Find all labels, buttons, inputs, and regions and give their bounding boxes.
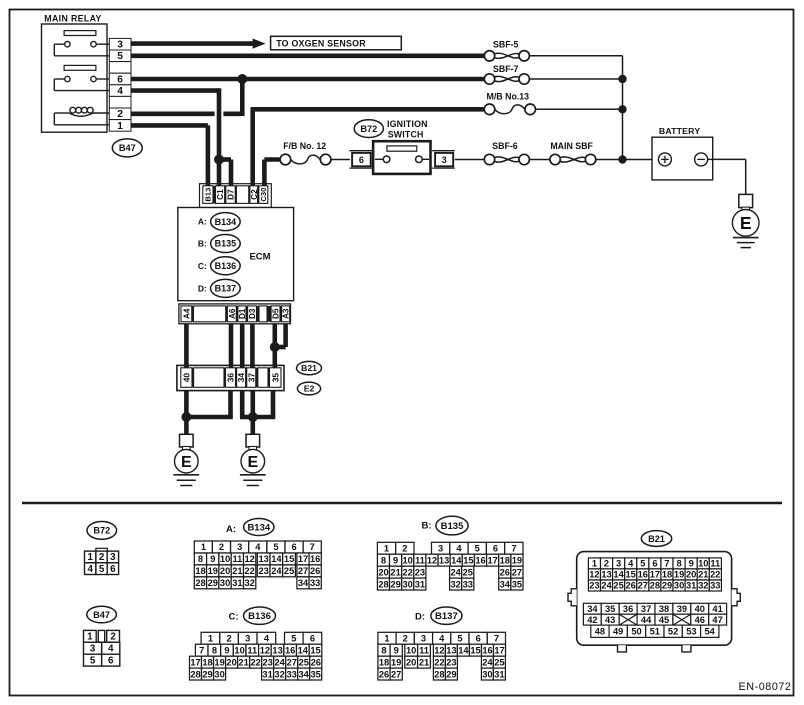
svg-text:45: 45 [659,615,669,625]
svg-text:E2: E2 [304,384,315,394]
wire SBF-6 to MAIN SBF [529,159,550,161]
svg-text:MAIN RELAY: MAIN RELAY [44,13,101,23]
svg-text:29: 29 [202,669,212,679]
svg-text:19: 19 [512,555,522,565]
svg-text:16: 16 [638,570,648,580]
svg-text:12: 12 [589,570,599,580]
svg-text:28: 28 [378,579,388,589]
svg-text:9: 9 [224,645,229,655]
svg-text:M/B No.13: M/B No.13 [487,92,530,102]
svg-text:17: 17 [298,554,308,564]
legend connector grid B137 [378,632,396,644]
svg-text:B13: B13 [204,188,213,202]
svg-text:4: 4 [108,644,114,655]
svg-text:35: 35 [270,373,280,383]
svg-text:2: 2 [117,109,123,120]
svg-text:36: 36 [623,604,633,614]
svg-text:A:: A: [226,524,236,535]
svg-text:31: 31 [686,581,696,591]
svg-text:1: 1 [592,559,597,569]
svg-text:9: 9 [394,645,399,655]
svg-text:5: 5 [475,544,480,554]
svg-text:22: 22 [434,657,444,667]
ignition switch terminal 6 [349,150,372,152]
svg-text:27: 27 [512,567,522,577]
connector B21 oval [297,361,322,374]
svg-text:34: 34 [299,669,310,679]
svg-text:3: 3 [442,155,447,165]
svg-text:8: 8 [677,559,682,569]
ECM top connector outer [200,184,272,208]
svg-text:26: 26 [500,567,510,577]
svg-text:B72: B72 [93,526,110,536]
svg-text:8: 8 [381,645,386,655]
svg-text:C:: C: [229,611,239,622]
svg-text:40: 40 [695,604,705,614]
svg-text:12: 12 [427,555,437,565]
svg-text:23: 23 [589,581,599,591]
svg-text:5: 5 [90,655,96,666]
svg-text:8: 8 [198,554,203,564]
svg-text:11: 11 [232,554,242,564]
svg-text:33: 33 [310,578,320,588]
svg-text:ECM: ECM [249,251,270,262]
wire pin6 to SBF-7 [131,77,484,82]
wire 40 down [184,391,189,417]
battery plus terminal [658,153,671,166]
junction dot C1/D7 branch [214,155,224,165]
svg-text:29: 29 [446,669,456,679]
svg-text:B135: B135 [441,521,464,532]
svg-text:6: 6 [652,559,657,569]
svg-text:16: 16 [475,555,485,565]
wire battery minus to ground [708,158,746,160]
svg-text:1: 1 [201,542,206,552]
svg-text:31: 31 [494,669,504,679]
legend B47 oval [87,606,117,623]
svg-text:3: 3 [616,559,621,569]
relay contact 2 [54,78,64,80]
ground E (right) [246,434,260,447]
svg-text:51: 51 [650,627,660,637]
legend connector grid B136 [201,632,220,644]
junction dot battery feed [618,155,626,163]
svg-text:B47: B47 [119,143,136,153]
svg-text:15: 15 [463,555,473,565]
svg-text:B:: B: [198,239,207,249]
svg-text:18: 18 [202,657,212,667]
svg-text:25: 25 [463,567,473,577]
svg-text:5: 5 [291,634,296,644]
svg-text:3: 3 [90,644,96,655]
B21 pin grid row 48-54 [591,625,609,637]
svg-text:2: 2 [227,634,232,644]
svg-text:33: 33 [287,669,297,679]
svg-text:28: 28 [434,669,444,679]
svg-text:34: 34 [298,578,309,588]
svg-text:38: 38 [659,604,669,614]
legend B47 connector [84,630,97,642]
connector E2 oval [297,382,320,395]
svg-text:16: 16 [310,554,320,564]
svg-text:30: 30 [482,669,492,679]
relay coil [54,112,69,114]
svg-text:32: 32 [451,579,461,589]
ignition switch terminal 3 [432,150,455,152]
legend B72 oval [87,522,117,540]
wire 36 down and left [228,391,233,417]
svg-text:25: 25 [613,581,623,591]
ECM bottom connector outer [179,304,291,324]
svg-text:B47: B47 [93,610,110,620]
svg-text:A6: A6 [228,308,237,319]
svg-text:22: 22 [251,657,261,667]
svg-text:15: 15 [284,554,294,564]
svg-text:14: 14 [298,645,309,655]
svg-text:25: 25 [284,566,294,576]
svg-text:22: 22 [245,566,255,576]
wire 35 down and left [271,391,276,417]
thin wires fuses to bus [529,55,622,57]
svg-text:1: 1 [87,552,93,563]
svg-text:5: 5 [273,542,278,552]
svg-text:9: 9 [210,554,215,564]
svg-text:6: 6 [310,634,315,644]
svg-text:13: 13 [446,645,456,655]
svg-text:34: 34 [587,604,598,614]
svg-text:10: 10 [698,559,708,569]
svg-text:35: 35 [512,579,522,589]
svg-text:52: 52 [668,627,678,637]
wire pin1 down to ECM B13 [131,123,208,128]
svg-text:20: 20 [378,567,388,577]
svg-text:35: 35 [605,604,615,614]
svg-text:30: 30 [403,579,413,589]
svg-text:18: 18 [500,555,510,565]
wire A3 joins D5 [283,324,288,347]
svg-text:46: 46 [695,615,705,625]
bus vertical to battery [622,56,624,160]
svg-text:1: 1 [384,634,389,644]
svg-text:27: 27 [287,657,297,667]
svg-text:43: 43 [605,615,615,625]
svg-text:23: 23 [259,566,269,576]
svg-text:2: 2 [219,542,224,552]
svg-text:A:: A: [198,217,207,227]
ECM bottom connector cells A4 A6 D1 D3 D5 A3 [181,306,192,322]
svg-text:D:: D: [415,611,425,622]
svg-text:6: 6 [493,544,498,554]
svg-text:B134: B134 [247,522,270,533]
B21 left tab [568,589,577,606]
svg-text:15: 15 [470,645,480,655]
svg-text:25: 25 [494,657,504,667]
connector B47 oval [112,139,142,157]
svg-text:18: 18 [379,657,389,667]
relay contact 2 fixed bar [64,65,96,70]
svg-text:B:: B: [422,521,432,532]
svg-text:4: 4 [439,634,445,644]
ECM top connector cells B13 C1 D7 C2 C30 [203,186,213,204]
svg-text:6: 6 [476,634,481,644]
svg-text:34: 34 [500,579,511,589]
svg-text:7: 7 [511,544,516,554]
svg-text:44: 44 [641,615,652,625]
relay contact 1 fixed bar [64,31,96,36]
connector row cells 40 36 34 37 35 [181,368,192,388]
B21 bottom tab 2 [682,645,691,652]
svg-text:3: 3 [245,634,250,644]
svg-text:A4: A4 [182,308,191,319]
wire 34 down and right [240,391,245,417]
svg-text:4: 4 [264,634,270,644]
svg-text:33: 33 [710,581,720,591]
svg-text:8: 8 [212,645,217,655]
B21 pin grid rows 1-33 [588,558,600,569]
svg-text:6: 6 [117,74,123,85]
svg-text:11: 11 [247,645,257,655]
svg-text:E: E [740,213,752,233]
svg-text:5: 5 [117,51,123,62]
svg-text:3: 3 [421,634,426,644]
svg-text:22: 22 [403,567,413,577]
svg-text:24: 24 [275,657,286,667]
svg-text:14: 14 [613,570,624,580]
wire F/B No.12 to ECM C30 [262,160,267,186]
wire A4 to 40 [184,324,189,368]
svg-text:MAIN SBF: MAIN SBF [550,141,593,151]
svg-text:B72: B72 [360,124,377,134]
svg-text:13: 13 [601,570,611,580]
svg-text:2: 2 [99,552,105,563]
section divider line [22,502,782,505]
svg-text:54: 54 [705,627,716,637]
svg-text:26: 26 [310,566,320,576]
svg-text:15: 15 [310,645,320,655]
B21 pin grid rows 34-47 [583,603,601,614]
svg-text:4: 4 [255,542,261,552]
svg-text:49: 49 [613,627,623,637]
svg-text:10: 10 [403,555,413,565]
svg-text:6: 6 [359,155,364,165]
wire terminal 3 to SBF-6 [455,159,485,161]
svg-text:26: 26 [626,581,636,591]
svg-text:31: 31 [232,578,242,588]
svg-text:8: 8 [381,555,386,565]
svg-text:42: 42 [587,615,597,625]
svg-text:22: 22 [710,570,720,580]
svg-text:30: 30 [214,669,224,679]
svg-text:21: 21 [238,657,248,667]
svg-text:21: 21 [390,567,400,577]
svg-text:16: 16 [285,645,295,655]
connector row B21/E2 outer [177,365,284,390]
svg-text:SWITCH: SWITCH [388,130,424,140]
svg-text:39: 39 [677,604,687,614]
svg-text:24: 24 [271,566,282,576]
svg-text:27: 27 [391,669,401,679]
wire M/B No.13 to ECM C2 [250,109,255,185]
svg-text:31: 31 [415,579,425,589]
svg-text:14: 14 [451,555,462,565]
svg-text:3: 3 [110,552,116,563]
svg-text:13: 13 [259,554,269,564]
svg-text:37: 37 [641,604,651,614]
legend B72 connector [96,548,108,551]
svg-text:1: 1 [384,544,389,554]
svg-text:24: 24 [451,567,462,577]
B21 right tab [732,589,741,606]
svg-text:B136: B136 [215,261,237,271]
svg-text:28: 28 [195,578,205,588]
svg-text:11: 11 [710,559,720,569]
svg-text:53: 53 [686,627,696,637]
svg-text:16: 16 [482,645,492,655]
svg-text:BATTERY: BATTERY [659,126,700,136]
ground E (left) [180,434,194,447]
battery minus terminal [695,153,708,166]
svg-text:19: 19 [214,657,224,667]
svg-text:12: 12 [260,645,270,655]
svg-text:6: 6 [108,655,114,666]
legend B21 oval [641,531,671,547]
wire pin4 down to ECM C1 (crosses pin2 wire) [131,88,219,93]
svg-text:18: 18 [662,570,672,580]
svg-text:35: 35 [311,669,321,679]
connector B72 oval [354,120,383,138]
svg-text:28: 28 [650,581,660,591]
junction dot M/B/bus [618,105,626,113]
svg-text:D5: D5 [272,308,281,319]
svg-text:18: 18 [195,566,205,576]
svg-text:SBF-5: SBF-5 [493,40,519,50]
svg-text:4: 4 [456,544,462,554]
svg-text:9: 9 [689,559,694,569]
svg-text:41: 41 [712,604,722,614]
svg-text:17: 17 [190,657,200,667]
svg-text:28: 28 [190,669,200,679]
svg-text:7: 7 [664,559,669,569]
svg-text:32: 32 [274,669,284,679]
svg-text:3: 3 [117,40,123,51]
svg-text:EN-08072: EN-08072 [738,681,791,693]
svg-text:19: 19 [674,570,684,580]
svg-text:1: 1 [117,121,123,132]
svg-text:23: 23 [446,657,456,667]
svg-text:29: 29 [208,578,218,588]
svg-text:B21: B21 [301,363,317,373]
svg-text:19: 19 [208,566,218,576]
svg-text:37: 37 [246,373,256,383]
svg-text:10: 10 [406,645,416,655]
svg-text:29: 29 [390,579,400,589]
svg-text:12: 12 [245,554,255,564]
ground E (battery) [739,194,753,207]
legend B21 connector body [577,552,732,646]
svg-text:B137: B137 [435,611,458,622]
svg-text:SBF-7: SBF-7 [493,64,519,74]
svg-text:SBF-6: SBF-6 [492,141,518,151]
svg-text:32: 32 [245,578,255,588]
svg-text:31: 31 [262,669,272,679]
svg-text:A3: A3 [282,308,291,319]
svg-text:5: 5 [457,634,462,644]
junction dot ground 2 [248,412,258,422]
svg-text:6: 6 [110,564,116,575]
svg-text:13: 13 [272,645,282,655]
svg-text:40: 40 [181,373,191,383]
svg-text:26: 26 [311,657,321,667]
svg-text:B134: B134 [215,217,237,227]
svg-text:B137: B137 [215,284,237,294]
svg-text:2: 2 [604,559,609,569]
svg-text:3: 3 [438,544,443,554]
wire A6 to 36 [229,324,234,368]
svg-text:1: 1 [208,634,213,644]
svg-text:26: 26 [379,669,389,679]
junction dot pin6/pin2 [237,74,247,84]
svg-text:3: 3 [237,542,242,552]
svg-text:20: 20 [220,566,230,576]
svg-text:2: 2 [402,544,407,554]
battery box [652,137,713,180]
svg-text:19: 19 [391,657,401,667]
ECM box [178,208,294,301]
wire fuse to terminal 6 [331,159,350,161]
svg-text:4: 4 [628,559,634,569]
svg-text:2: 2 [110,632,116,643]
svg-text:D7: D7 [227,189,236,200]
wire D1 to 34 [240,324,245,368]
wire 37 straight down [251,391,256,435]
svg-text:25: 25 [299,657,309,667]
svg-text:D:: D: [198,284,207,294]
to oxgen sensor box [271,36,402,50]
svg-text:9: 9 [393,555,398,565]
svg-text:50: 50 [631,627,641,637]
ignition switch box B72 [373,141,430,174]
svg-text:24: 24 [601,581,612,591]
junction dot SBF-7/bus [618,75,626,83]
svg-text:C2: C2 [250,189,259,200]
svg-text:IGNITION: IGNITION [387,119,428,129]
svg-text:34: 34 [236,373,246,383]
svg-text:30: 30 [674,581,684,591]
svg-text:7: 7 [310,542,315,552]
svg-text:10: 10 [220,554,230,564]
svg-text:6: 6 [292,542,297,552]
svg-text:B136: B136 [248,611,271,622]
main relay box [42,24,108,132]
wire D5 to 35 [272,324,277,368]
svg-text:11: 11 [419,645,429,655]
svg-text:7: 7 [199,645,204,655]
svg-text:17: 17 [488,555,498,565]
svg-text:12: 12 [434,645,444,655]
relay connector B47 pin column (pins 3,5,6,4,2,1) [109,38,131,50]
wire branch to D7 [219,157,231,162]
svg-text:4: 4 [87,564,93,575]
svg-text:5: 5 [640,559,645,569]
svg-text:2: 2 [403,634,408,644]
svg-text:48: 48 [595,627,605,637]
svg-text:14: 14 [271,554,282,564]
svg-text:C30: C30 [259,188,268,202]
svg-text:D1: D1 [238,308,247,319]
svg-text:32: 32 [698,581,708,591]
svg-text:10: 10 [234,645,244,655]
svg-text:E: E [181,454,192,471]
